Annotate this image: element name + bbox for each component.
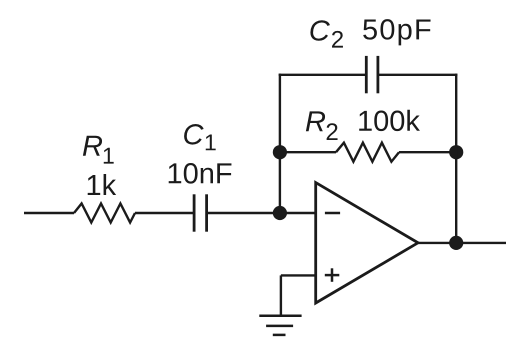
capacitor C1 left plate [193,194,196,231]
value 50pF [363,19,430,45]
resistor R1 [74,204,135,223]
capacitor C2 right plate [376,56,379,93]
label R2 [306,111,325,131]
capacitor C1 right plate [205,194,208,231]
value 10nF [169,163,232,184]
wire feedback top-right horizontal [378,74,458,76]
wire output [417,242,506,244]
node feedback right (junction dot) [449,145,463,159]
node inverting input (junction dot) [273,206,287,220]
wire feedback left vertical [279,74,281,213]
wire input-left segment [24,212,74,214]
wire R2 right lead [399,151,456,153]
wire R2 left lead [280,151,336,153]
label C1 subscript 1 [206,134,216,150]
label C2 subscript 2 [332,31,343,48]
label R1 [83,136,102,156]
wire C1 to inverting-input node [207,212,316,214]
ground middle bar [266,325,293,328]
wire R1 to C1 [135,212,194,214]
resistor R2 [336,143,399,162]
capacitor C2 left plate [365,56,368,93]
value 100k [359,110,420,131]
op-amp U1 triangle [316,183,418,303]
wire noninverting input vertical to ground [280,275,282,315]
label C2 [310,20,330,41]
value 1k [88,174,116,195]
label R2 subscript 2 [327,123,338,140]
label C1 [184,124,204,145]
wire feedback right vertical [455,74,457,243]
node output (junction dot) [449,236,463,250]
wire noninverting input horizontal [281,274,316,276]
wire feedback top-left horizontal [279,74,367,76]
op-amp minus sign [325,212,340,215]
node feedback left (junction dot) [273,145,287,159]
ground top bar [259,314,301,317]
op-amp plus sign horizontal [325,274,340,277]
op-amp plus sign vertical [331,268,334,282]
ground bottom bar [273,334,286,337]
label R1 subscript 1 [104,148,114,164]
